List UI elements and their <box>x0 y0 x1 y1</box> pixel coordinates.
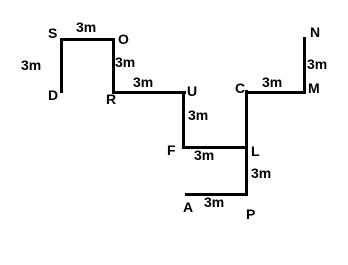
node D <box>48 88 58 102</box>
label 3m (U-F) <box>188 108 208 122</box>
label 3m (A-P) <box>204 195 224 209</box>
node F <box>167 143 176 157</box>
node C <box>235 81 245 95</box>
node P <box>246 207 255 221</box>
node O <box>118 32 129 46</box>
wire S-O (top horizontal) <box>60 38 115 41</box>
node N <box>310 25 320 39</box>
wire F-L (horizontal) <box>182 146 248 149</box>
wire S-D (left vertical) <box>60 38 63 93</box>
node S <box>48 26 57 40</box>
label 3m (N-M) <box>307 57 327 71</box>
wire C-M (horizontal) <box>245 91 306 94</box>
label 3m (L-P) <box>251 166 271 180</box>
wire N-M (vertical) <box>303 37 306 94</box>
label 3m (F-L) <box>194 148 214 162</box>
node M <box>308 81 320 95</box>
label 3m (R-U) <box>133 75 153 89</box>
node A <box>183 200 193 214</box>
label 3m (S-O) <box>76 20 96 34</box>
wire C-L-P (long vertical) <box>245 90 248 196</box>
wire A-P (bottom horizontal) <box>185 193 247 196</box>
node R <box>106 92 116 106</box>
wire R-U (horizontal) <box>112 91 186 94</box>
node L <box>251 144 260 158</box>
wire U-F (vertical) <box>182 91 185 149</box>
label 3m (C-M) <box>262 75 282 89</box>
label 3m (O-R) <box>115 55 135 69</box>
label 3m (S-D) <box>21 58 41 72</box>
node U <box>187 84 197 98</box>
wire O-R (vertical) <box>112 38 115 94</box>
